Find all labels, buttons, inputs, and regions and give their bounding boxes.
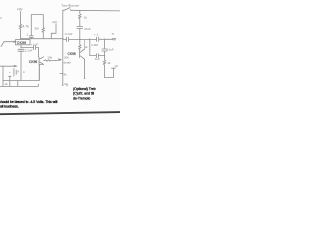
wire C1 down to ground rail [20, 51, 22, 80]
node junction rail-VR1 [62, 38, 63, 39]
wire U1 to C1 [20, 45, 22, 48]
wire input lead [1, 42, 14, 47]
svg-text:full loudness.: full loudness. [0, 104, 19, 108]
battery B1 plates [14, 69, 16, 77]
box U1 CK96 [16, 40, 31, 45]
wire S1 pole down to rail [62, 10, 64, 38]
svg-text:+9V: +9V [52, 20, 57, 24]
resistor R5 output [103, 56, 105, 78]
capacitor C8 on loop leg [29, 36, 33, 39]
wire R1 to node A [20, 31, 22, 39]
wire node B to C3 [21, 47, 33, 49]
node junction rail-output branch [89, 39, 90, 40]
svg-text:+9V: +9V [17, 7, 24, 11]
resistor R1 [19, 24, 21, 31]
note text bottom-left [0, 100, 58, 108]
svg-text:47uF: 47uF [84, 27, 91, 31]
node junction C6-R5 [104, 55, 105, 56]
node rail end terminal dashes [113, 39, 116, 40]
wire battery minus drop [9, 76, 12, 86]
wire +9V rail down [20, 12, 22, 25]
wire +9V feed jog to rail [51, 24, 56, 39]
node VR1 bottom terminal dot [62, 85, 63, 86]
note text right [73, 87, 96, 101]
wire rail to return drop [17, 81, 19, 87]
svg-text:5k: 5k [64, 73, 68, 77]
svg-text:+: + [9, 70, 11, 74]
svg-text:10k: 10k [47, 56, 52, 60]
capacitor C4 [77, 27, 83, 29]
transistor Q1 [80, 49, 85, 59]
resistor R3 from switch rail [79, 10, 81, 22]
node Q1 emitter terminal dot [84, 78, 85, 79]
wire output U loop [105, 68, 116, 77]
node junction rail-R4 [79, 39, 80, 40]
page rule bottom [0, 112, 120, 114]
svg-text:2M: 2M [35, 26, 40, 30]
resistor R6 in Q2 collector wire [44, 60, 58, 61]
svg-text:(C)ut?, and till: (C)ut?, and till [73, 92, 94, 96]
svg-text:0.1uF: 0.1uF [65, 32, 73, 36]
svg-text:.1uF: .1uF [94, 57, 100, 61]
svg-text:de-Tremolo: de-Tremolo [73, 96, 90, 100]
node junction B-C3 [20, 47, 21, 48]
transistor Q2 [39, 57, 44, 65]
svg-text:Tone/Booster: Tone/Booster [61, 4, 79, 8]
svg-text:1k: 1k [5, 82, 9, 86]
wire C3 to Q2 base [38, 48, 40, 57]
svg-text:2.2uF: 2.2uF [25, 48, 33, 52]
node page-edge tick left [0, 17, 2, 19]
resistor R4 bias [79, 39, 81, 50]
wire left return down [2, 66, 4, 86]
svg-text:depth: depth [64, 60, 72, 64]
node VR1 tap tick [60, 73, 63, 75]
capacitor C7 shunt [102, 39, 107, 55]
svg-text:+.1: +.1 [94, 32, 99, 36]
svg-text:1k: 1k [84, 15, 88, 19]
node VR1 end tick symbol [65, 84, 68, 86]
switch S1 [63, 8, 120, 11]
resistor R2 [42, 28, 44, 39]
wire output branch down [89, 39, 91, 55]
node junction rail-C7 [104, 39, 105, 40]
svg-text:(Optional) Treb: (Optional) Treb [73, 87, 96, 91]
wire R3 to C4 [79, 22, 81, 27]
capacitor C6 series output [90, 54, 105, 58]
node S1 contact left [64, 10, 65, 11]
potentiometer VR1 element [62, 39, 64, 86]
capacitor C5 series in rail right [97, 37, 113, 41]
wire input bottom lead [0, 65, 14, 67]
wire Q1 collector up to rail [84, 39, 86, 49]
svg-text:+.1uF: +.1uF [30, 42, 38, 46]
svg-text:1k: 1k [107, 61, 111, 65]
svg-text:4.7k: 4.7k [23, 25, 30, 29]
svg-text:uF: uF [115, 64, 119, 68]
wire Q2 emitter down to ground rail [39, 64, 43, 80]
svg-text:.1: .1 [26, 33, 29, 37]
node input arrowhead [14, 41, 18, 43]
svg-text:CK96: CK96 [29, 60, 37, 64]
svg-text:should be biased to -4.5 Volts: should be biased to -4.5 Volts. This wil… [0, 100, 58, 104]
svg-text:CK96: CK96 [68, 52, 76, 56]
wire bottom return line [0, 84, 38, 86]
wire C4 down to rail [79, 29, 81, 40]
svg-text:Tr: Tr [112, 32, 115, 36]
node wiper arrowhead into VR1 [58, 58, 62, 61]
capacitor C2 series in rail [63, 37, 80, 41]
capacitor C1 [18, 49, 24, 51]
capacitor C3 series coupling [34, 46, 39, 50]
wire Q1 emitter down [84, 59, 86, 78]
wire ground rail bottom [3, 64, 40, 80]
svg-text:CK96: CK96 [17, 41, 26, 45]
svg-text:2.2M: 2.2M [91, 43, 98, 47]
node input lead arrowhead [14, 65, 18, 67]
wire feedback loop top-left [31, 15, 43, 36]
svg-text:+1uF: +1uF [107, 47, 114, 51]
wire bus rail left section [21, 38, 64, 40]
wire bus rail right section [80, 38, 97, 40]
node S1 contact right [69, 8, 72, 11]
